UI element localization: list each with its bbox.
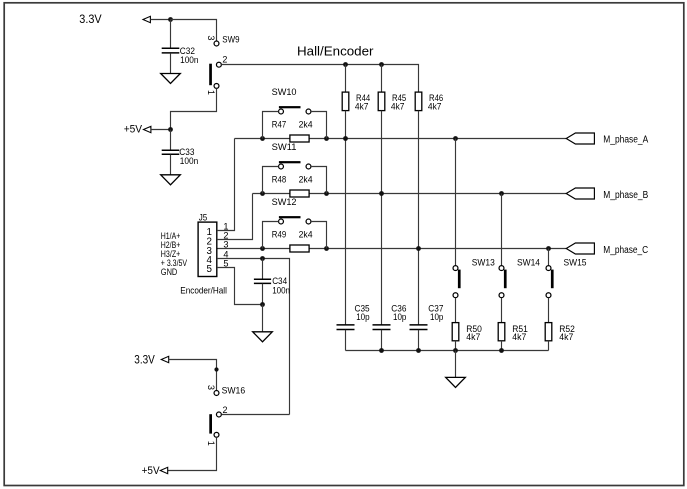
net flag M_phase_C [566,243,594,254]
svg-text:M_phase_B: M_phase_B [603,190,648,201]
power flag +5V (top) [144,126,151,132]
junction row B / SW11 left leg [260,191,265,196]
capacitor C32 [170,20,172,49]
wire 3.3V flag to junction [150,19,170,21]
wire R46 column to C37 [418,111,420,325]
wire SW9 pin2 rail to R46 [221,65,418,93]
junction row B / R45 [379,191,384,196]
wire SW15 column from row [548,249,550,266]
svg-text:3: 3 [206,385,216,390]
svg-text:3.3V: 3.3V [79,12,101,26]
wire 3.3V junction to SW9 pin3 [171,20,217,42]
switch SW15 [546,266,551,271]
junction row B / SW14 [499,191,504,196]
connector J5 body [198,222,217,276]
junction bus/C36 [379,348,384,353]
svg-text:3.3V: 3.3V [134,353,155,366]
wire SW12 left leg [263,222,279,249]
capacitor C36 [373,325,391,330]
switch SW14 [499,266,504,271]
svg-text:M_phase_A: M_phase_A [603,135,648,146]
switch SW16 [214,391,219,396]
wire J5 pin4 net +3.3/5V [217,259,290,415]
svg-text:100n: 100n [180,54,198,65]
wire 3.3V flag to SW16 pin3 [169,360,217,391]
resistor R44 [342,92,349,111]
ground under C34 [253,332,273,342]
wire J5 pin2 to row B [217,194,253,240]
svg-text:Hall/Encoder: Hall/Encoder [297,44,374,58]
svg-text:SW11: SW11 [272,141,297,152]
junction J5 pin4 / C34 [260,256,265,261]
svg-text:10p: 10p [356,311,369,322]
switch SW12 [279,219,284,224]
svg-text:4k7: 4k7 [512,331,526,342]
wire SW10 left leg [263,112,279,139]
wire rail to R45 [381,65,383,93]
capacitor C37 [410,325,428,330]
net flag M_phase_A [566,133,594,144]
junction row B / SW11 right leg [324,191,329,196]
svg-text:M_phase_C: M_phase_C [603,245,648,256]
power flag 3.3V (bottom) [161,356,168,362]
junction rail/R44 [343,62,348,67]
svg-text:+5V: +5V [142,465,160,477]
svg-text:2: 2 [223,405,228,415]
wire R51 to bus [501,341,503,351]
wire R50 to bus [455,341,457,351]
wire rail to R44 [345,65,347,93]
capacitor C34 [262,259,264,280]
wire J5 pin1 to row A [217,139,235,231]
svg-text:100n: 100n [272,285,290,296]
resistor R49 [290,245,309,252]
switch SW11 [279,164,284,169]
wire SW16 pin1 to +5V flag [168,437,217,470]
svg-text:1: 1 [206,90,216,95]
junction row A / SW10 right leg [324,136,329,141]
svg-text:5: 5 [206,264,212,275]
junction row C / R46 [416,246,421,251]
junction rail/R45 [379,62,384,67]
junction row A / SW10 left leg [260,136,265,141]
svg-text:4k7: 4k7 [466,331,480,342]
wire SW16 pin2 to +3.3/5V net [222,414,290,416]
svg-text:SW13: SW13 [472,257,495,268]
resistor R45 [378,92,385,111]
ground under C32 [161,74,181,84]
svg-text:SW15: SW15 [564,257,587,268]
junction on 3.3V wire [214,367,218,371]
capacitor C35 [337,325,355,330]
switch SW9 [214,41,219,46]
junction row C / SW15 [546,246,551,251]
junction bus/R50 [453,348,458,353]
resistor R50 [452,323,459,341]
power flag +5V (bottom) [160,467,167,473]
switch SW13 [453,266,458,271]
junction +5V/C33 [168,127,173,132]
junction bus/C37 [416,348,421,353]
junction 3.3V/C32 [168,17,173,22]
svg-text:2: 2 [222,55,227,65]
capacitor C33 [170,130,172,151]
wire R44 column to C35 [345,111,347,325]
svg-text:+5V: +5V [124,124,143,136]
svg-text:R49: R49 [272,228,286,239]
wire +5V flag to junction [151,129,171,131]
svg-text:1: 1 [206,441,216,446]
switch SW10 [279,109,284,114]
svg-text:GND: GND [161,267,178,277]
wire ground bus [346,350,549,352]
wire SW9 pin1 to +5V junction [171,88,217,129]
junction row C / SW12 left leg [260,246,265,251]
resistor R46 [415,92,422,111]
wire SW11 right leg [311,167,327,194]
resistor R52 [545,323,552,341]
svg-text:10p: 10p [393,311,406,322]
wire row C (H3 / M_phase_C) [217,248,290,250]
svg-text:3: 3 [206,35,216,40]
svg-text:2k4: 2k4 [299,173,313,184]
ground under C33 [161,175,181,185]
power flag 3.3V (top) [143,16,150,22]
junction bus/R51 [499,348,504,353]
svg-text:SW12: SW12 [272,196,297,207]
svg-text:4k7: 4k7 [428,101,442,112]
wire SW13 column from row [455,139,457,266]
svg-text:SW10: SW10 [272,86,297,97]
svg-text:SW9: SW9 [222,34,239,44]
wire SW15 to R52 [548,298,550,323]
svg-text:3: 3 [223,240,228,250]
wire bus ground stem [455,351,457,378]
svg-text:R48: R48 [272,173,286,184]
wire C34 ground stem [262,305,264,332]
wire SW11 left leg [263,167,279,194]
svg-text:SW16: SW16 [222,385,246,395]
wire R45 column to C36 [381,111,383,325]
svg-text:Encoder/Hall: Encoder/Hall [180,285,227,296]
svg-text:4k7: 4k7 [355,101,369,112]
junction row A / R44 [343,136,348,141]
wire SW14 to R51 [501,298,503,323]
svg-text:4k7: 4k7 [391,101,405,112]
wire SW13 to R50 [455,298,457,323]
wire SW10 right leg [311,112,327,139]
svg-text:SW14: SW14 [517,257,540,268]
resistor R48 [290,190,309,197]
wire R52 to bus [548,341,550,351]
svg-text:R47: R47 [272,118,286,129]
svg-text:J5: J5 [199,212,208,223]
wire SW14 column from row [501,194,503,266]
svg-text:2k4: 2k4 [299,118,313,129]
wire row A (H1 / M_phase_A) [235,138,290,140]
svg-text:2k4: 2k4 [299,228,313,239]
wire J5 pin5 to GND node [217,268,263,305]
net flag M_phase_B [566,188,594,199]
resistor R51 [498,323,505,341]
junction row C / SW12 right leg [324,246,329,251]
wire SW12 right leg [311,222,327,249]
junction C34/GND [260,302,265,307]
svg-text:100n: 100n [180,155,198,166]
svg-text:4k7: 4k7 [559,331,573,342]
svg-text:10p: 10p [430,311,443,322]
resistor R47 [290,135,309,142]
ground under bus [446,377,466,387]
junction row A / SW13 [453,136,458,141]
wire row B (H2 / M_phase_B) [253,193,290,195]
